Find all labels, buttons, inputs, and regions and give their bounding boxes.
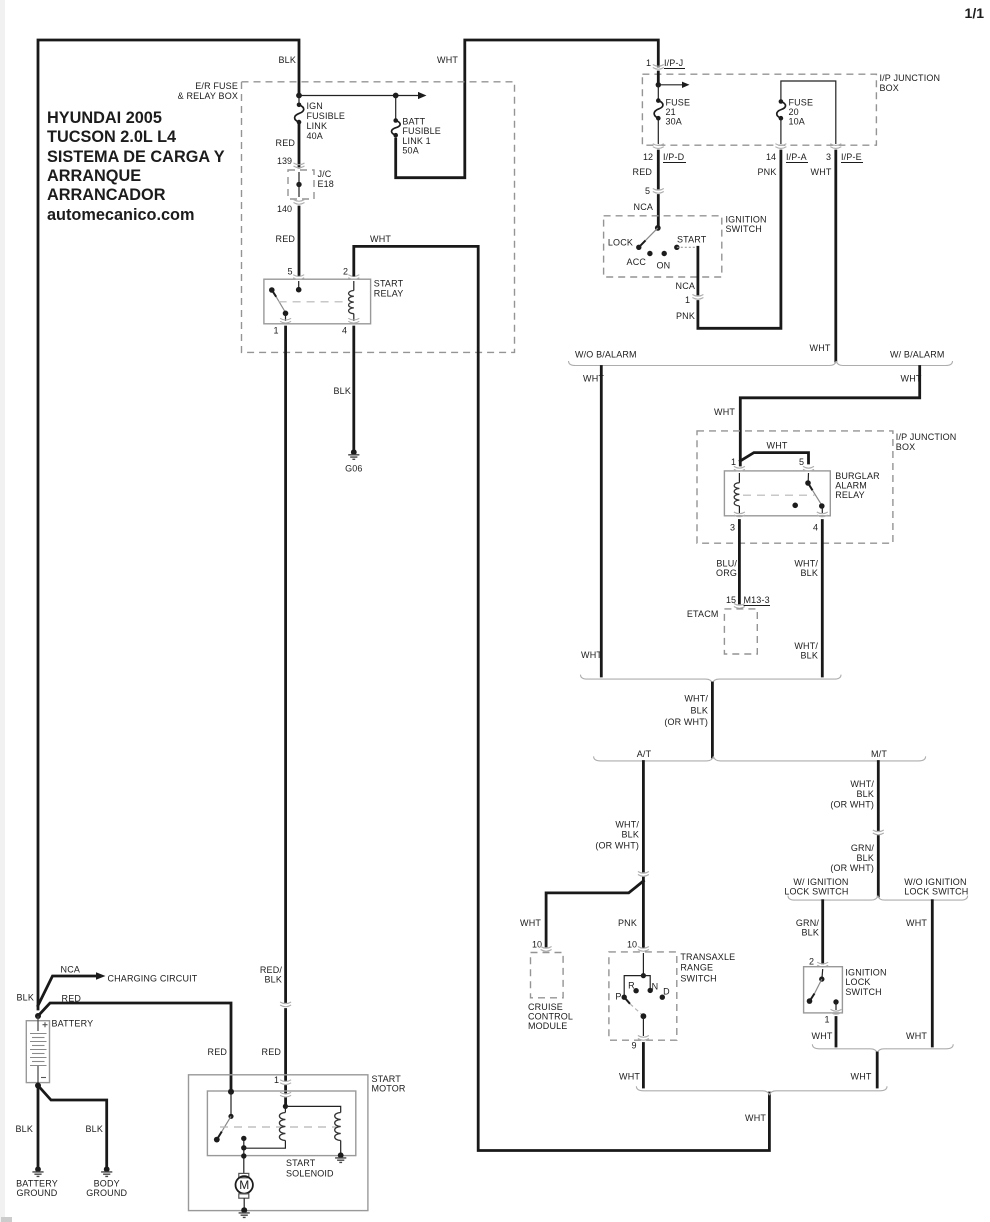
svg-text:WHT: WHT — [811, 167, 832, 177]
label START SOLENOID — [286, 1158, 334, 1179]
svg-text:RED: RED — [633, 167, 653, 177]
connector transaxle pin 9 — [638, 1036, 649, 1041]
label START RELAY — [374, 279, 404, 299]
label WHT/ BLK (lower) — [794, 641, 818, 661]
connector ignition lock pin 2 — [817, 962, 828, 967]
contact R — [633, 988, 638, 993]
solenoid mechanical link (dashed) — [220, 1126, 339, 1128]
svg-text:TRANSAXLE: TRANSAXLE — [680, 952, 735, 962]
svg-text:ORG: ORG — [716, 568, 737, 578]
wire: M/T branch down to lock-switch bus — [877, 762, 880, 897]
svg-text:MODULE: MODULE — [528, 1021, 567, 1031]
wire: RED from J/C to start relay pin 5 — [298, 207, 301, 275]
start relay U1 box — [264, 279, 371, 324]
in-line connector on M/T branch — [873, 830, 884, 835]
svg-text:SISTEMA DE CARGA Y: SISTEMA DE CARGA Y — [47, 148, 225, 166]
start relay switch arm — [269, 287, 275, 293]
ground G06 — [345, 449, 362, 473]
svg-text:BLK: BLK — [86, 1124, 103, 1134]
svg-text:I/P JUNCTION: I/P JUNCTION — [880, 73, 941, 83]
node: battery negative terminal — [35, 1083, 41, 1089]
svg-text:WHT: WHT — [714, 407, 735, 417]
svg-text:4: 4 — [342, 326, 347, 336]
wire: WHT from BATT fusible link up and over to I/P-J — [396, 40, 659, 178]
E/R fuse and relay box (dashed) — [242, 82, 515, 353]
svg-text:WHT/: WHT/ — [794, 559, 818, 569]
svg-text:WHT: WHT — [520, 918, 541, 928]
wire: contact to motor column — [243, 1138, 245, 1173]
connector alarm relay pin 3 — [734, 512, 745, 517]
svg-text:14: 14 — [766, 152, 776, 162]
start motor outer box — [189, 1075, 368, 1211]
svg-text:GRN/: GRN/ — [796, 918, 819, 928]
svg-text:BOX: BOX — [880, 83, 899, 93]
svg-text:BLK: BLK — [16, 1124, 33, 1134]
svg-text:(OR WHT): (OR WHT) — [595, 841, 639, 851]
svg-text:9: 9 — [631, 1041, 636, 1051]
svg-text:10: 10 — [532, 940, 542, 950]
label WHT/ BLK (OR WHT) — [664, 694, 708, 728]
label E/R FUSE & RELAY BOX — [178, 81, 238, 101]
contact P — [622, 995, 627, 1000]
label M13-3 — [744, 595, 771, 606]
alarm relay switch — [792, 473, 824, 513]
svg-text:R: R — [628, 981, 635, 991]
svg-text:PNK: PNK — [758, 167, 777, 177]
wire: RED from battery to start motor — [38, 1003, 231, 1090]
svg-text:TUCSON 2.0L L4: TUCSON 2.0L L4 — [47, 128, 176, 146]
label IGNITION LOCK SWITCH — [845, 968, 886, 998]
svg-text:NCA: NCA — [676, 281, 695, 291]
label I/P JUNCTION BOX — [880, 73, 941, 93]
svg-text:FUSIBLE: FUSIBLE — [307, 111, 346, 121]
connector at J/C bottom — [294, 200, 305, 205]
svg-text:LOCK SWITCH: LOCK SWITCH — [904, 887, 968, 897]
svg-text:WHT/: WHT/ — [850, 779, 874, 789]
svg-text:& RELAY BOX: & RELAY BOX — [178, 91, 238, 101]
svg-text:LOCK: LOCK — [608, 238, 633, 248]
svg-text:BLK: BLK — [622, 830, 639, 840]
node: junction dot at BATT fusible link tap — [393, 93, 399, 99]
svg-text:RED: RED — [276, 138, 296, 148]
svg-text:START: START — [677, 235, 707, 245]
alarm relay mechanical link (dashed) — [743, 494, 815, 496]
body ground symbol — [101, 1166, 112, 1176]
svg-text:1: 1 — [685, 295, 690, 305]
svg-text:10: 10 — [627, 940, 637, 950]
svg-text:W/ B/ALARM: W/ B/ALARM — [890, 350, 945, 360]
svg-text:21: 21 — [666, 107, 676, 117]
merge bus below lock switch — [812, 1044, 953, 1053]
cruise control module box (dashed) — [531, 953, 564, 998]
connector start motor pin 1 — [280, 1080, 291, 1085]
svg-text:139: 139 — [277, 156, 292, 166]
wire: WHT w/ alarm branch to burglar alarm relay — [740, 367, 919, 466]
svg-text:SWITCH: SWITCH — [726, 224, 762, 234]
svg-text:5: 5 — [799, 457, 804, 467]
svg-text:BLK: BLK — [691, 706, 708, 716]
wire: NCA branch to charging circuit — [38, 976, 96, 1006]
connector I/P-D at box bottom — [653, 144, 664, 149]
wire: BLU/ORG from pin 3 to ETACM — [738, 521, 741, 604]
svg-text:BODY: BODY — [94, 1179, 120, 1189]
contact N — [648, 988, 653, 993]
svg-text:1/1: 1/1 — [965, 5, 985, 21]
svg-text:1: 1 — [274, 1075, 279, 1085]
solenoid contact switch — [214, 1092, 234, 1143]
solenoid hold-in winding — [285, 1106, 340, 1154]
svg-text:WHT: WHT — [619, 1072, 640, 1082]
start solenoid inner box — [207, 1091, 355, 1156]
svg-text:START: START — [286, 1158, 316, 1168]
svg-text:PNK: PNK — [676, 311, 695, 321]
svg-text:I/P-E: I/P-E — [841, 152, 862, 162]
fusible link BATT 50A symbol — [392, 118, 401, 137]
wire: START contact stub — [677, 246, 698, 248]
ground at hold-in winding — [335, 1152, 346, 1162]
svg-text:I/P-D: I/P-D — [663, 152, 685, 162]
wire: WHT w/o alarm branch (long left drop) — [600, 367, 603, 677]
wire: feed inside I/P box — [657, 72, 660, 85]
svg-text:BLU/: BLU/ — [716, 559, 737, 569]
ignition switch box (dashed) — [604, 216, 722, 277]
label TRANSAXLE RANGE SWITCH — [680, 952, 735, 984]
svg-text:ALARM: ALARM — [835, 481, 867, 491]
wire: WHT from ignition lock pin 1 — [835, 1018, 838, 1047]
wire: RED from IGN fusible link to J/C E18 — [298, 124, 301, 167]
label CRUISE CONTROL MODULE — [528, 1002, 573, 1031]
node: solenoid winding feed dot — [283, 1104, 288, 1109]
svg-text:RELAY: RELAY — [374, 288, 404, 298]
svg-text:LINK 1: LINK 1 — [402, 136, 430, 146]
contact START — [674, 245, 679, 250]
svg-text:(OR WHT): (OR WHT) — [664, 717, 708, 727]
motor M armature — [236, 1173, 253, 1209]
svg-text:START: START — [374, 279, 404, 289]
node: solenoid motor-side contact — [241, 1136, 246, 1141]
svg-text:WHT/: WHT/ — [684, 694, 708, 704]
label BLU/ ORG — [716, 559, 737, 579]
wire: WHT w/o lock switch branch — [931, 901, 934, 1046]
svg-text:E/R FUSE: E/R FUSE — [195, 81, 238, 91]
connector I/P-J — [653, 65, 664, 70]
svg-text:5: 5 — [287, 267, 292, 277]
svg-text:HYUNDAI 2005: HYUNDAI 2005 — [47, 109, 162, 127]
svg-text:4: 4 — [813, 523, 818, 533]
svg-text:(OR WHT): (OR WHT) — [830, 800, 874, 810]
svg-text:BATTERY: BATTERY — [52, 1019, 94, 1029]
start relay fixed contact from pin 5 — [298, 281, 300, 289]
node: junction dot at BLK tap in E/R box — [296, 93, 302, 99]
svg-text:automecanico.com: automecanico.com — [47, 206, 194, 224]
svg-text:ETACM: ETACM — [687, 609, 719, 619]
label RED/ BLK — [260, 965, 282, 985]
svg-text:SWITCH: SWITCH — [845, 987, 881, 997]
svg-text:PNK: PNK — [618, 918, 637, 928]
value label IGN FUSIBLE LINK 40A — [307, 101, 346, 141]
ignition lock switch box — [804, 967, 843, 1013]
svg-text:GROUND: GROUND — [17, 1188, 58, 1198]
value label BATT FUSIBLE LINK 1 50A — [402, 117, 441, 156]
start relay coil — [353, 281, 355, 291]
svg-text:2: 2 — [343, 267, 348, 277]
svg-text:RED: RED — [208, 1047, 228, 1057]
svg-text:RELAY: RELAY — [835, 490, 865, 500]
svg-text:RED: RED — [262, 1047, 282, 1057]
svg-text:RANGE: RANGE — [680, 963, 713, 973]
svg-text:FUSE: FUSE — [789, 98, 814, 108]
svg-text:BLK: BLK — [857, 789, 874, 799]
connector I/P-A at box bottom — [775, 144, 786, 149]
svg-text:CHARGING CIRCUIT: CHARGING CIRCUIT — [108, 974, 198, 984]
svg-text:40A: 40A — [307, 131, 323, 141]
svg-text:GROUND: GROUND — [86, 1188, 127, 1198]
svg-text:IGN: IGN — [307, 101, 323, 111]
svg-text:WHT: WHT — [901, 374, 922, 384]
wire: WHT/BLK from pin 4 to bracket 2 — [821, 521, 824, 677]
node: pull-in coil junction — [241, 1145, 246, 1150]
connector start relay pin 2 — [348, 275, 359, 280]
svg-text:RED: RED — [276, 234, 296, 244]
label BATTERY GROUND — [16, 1179, 58, 1199]
label J/C E18 — [318, 169, 334, 189]
wire: battery BLK feed (left frame, top run, drop into E/R box) — [38, 40, 299, 1009]
wire: thin feed line with arrow (to other circuits) — [299, 95, 418, 97]
node: battery positive terminal — [35, 1013, 41, 1019]
page left edge scan artifact — [0, 0, 5, 1222]
svg-text:WHT/: WHT/ — [794, 641, 818, 651]
label START MOTOR — [372, 1074, 406, 1094]
svg-text:12: 12 — [643, 152, 653, 162]
svg-text:1: 1 — [273, 326, 278, 336]
svg-text:WHT: WHT — [810, 343, 831, 353]
ignition switch rotor — [641, 225, 661, 246]
connector alarm relay pin 5 — [803, 466, 814, 471]
svg-text:WHT: WHT — [745, 1113, 766, 1123]
I/P junction box (dashed) — [642, 74, 876, 145]
svg-text:CRUISE: CRUISE — [528, 1002, 563, 1012]
svg-text:1: 1 — [646, 58, 651, 68]
alarm relay coil — [734, 473, 739, 513]
wire: A/T branch down to transaxle range switch — [642, 762, 645, 948]
svg-text:BLK: BLK — [801, 568, 818, 578]
option bus: with/without ignition lock switch — [788, 896, 968, 901]
svg-text:RED: RED — [62, 994, 82, 1004]
label GRN/ BLK (OR WHT) — [830, 843, 874, 873]
label I/P-E — [841, 152, 863, 163]
svg-text:WHT: WHT — [583, 374, 604, 384]
option bus: with/without burglar alarm — [569, 361, 953, 366]
in-line connector on RED/BLK wire — [280, 1002, 291, 1007]
svg-text:BLK: BLK — [857, 853, 874, 863]
connector ETACM pin 15 — [734, 604, 745, 609]
svg-text:1: 1 — [824, 1015, 829, 1025]
svg-text:SOLENOID: SOLENOID — [286, 1169, 334, 1179]
value label FUSE 21 30A — [666, 98, 691, 127]
svg-text:30A: 30A — [666, 117, 682, 127]
solenoid pull-in winding — [244, 1106, 286, 1148]
wire: RED/BLK from start relay pin 1 down to start motor — [284, 327, 287, 1105]
start relay switch to pin 1 — [285, 313, 287, 321]
svg-text:5: 5 — [645, 186, 650, 196]
wire: WHT jog to relay pin 5 — [740, 453, 808, 463]
svg-text:ARRANQUE: ARRANQUE — [47, 167, 141, 185]
svg-text:M: M — [239, 1178, 249, 1192]
label I/P-D — [663, 152, 686, 163]
burglar alarm relay box — [724, 471, 830, 516]
svg-text:3: 3 — [730, 523, 735, 533]
svg-text:1: 1 — [731, 457, 736, 467]
svg-text:GRN/: GRN/ — [851, 843, 874, 853]
svg-text:M/T: M/T — [871, 749, 887, 759]
wire: BLK battery to body ground — [38, 1086, 107, 1167]
svg-text:BLK: BLK — [279, 55, 296, 65]
fusible link IGN 40A symbol — [295, 96, 304, 125]
svg-text:WHT: WHT — [812, 1031, 833, 1041]
wire: branch to cruise control module — [546, 881, 643, 946]
contact ACC — [647, 251, 652, 256]
svg-text:I/P-J: I/P-J — [664, 58, 683, 68]
svg-text:A/T: A/T — [637, 749, 652, 759]
ETACM box (dashed) — [724, 609, 757, 654]
wire: WHT from merge bus down — [876, 1053, 879, 1087]
svg-text:ARRANCADOR: ARRANCADOR — [47, 186, 166, 204]
svg-text:LOCK SWITCH: LOCK SWITCH — [784, 887, 848, 897]
svg-text:BLK: BLK — [802, 928, 819, 938]
contact D — [660, 995, 665, 1000]
ground at motor — [239, 1207, 250, 1217]
svg-text:(OR WHT): (OR WHT) — [830, 863, 874, 873]
svg-text:BLK: BLK — [17, 993, 34, 1003]
svg-text:BLK: BLK — [334, 386, 351, 396]
svg-text:140: 140 — [277, 204, 292, 214]
svg-text:BURGLAR: BURGLAR — [835, 471, 880, 481]
svg-text:M13-3: M13-3 — [744, 595, 770, 605]
wire: WHT loop from start relay pin 2 down right side to bottom bus — [354, 246, 770, 1150]
svg-text:J/C: J/C — [318, 169, 332, 179]
svg-text:W/O B/ALARM: W/O B/ALARM — [575, 350, 637, 360]
svg-text:LOCK: LOCK — [845, 977, 870, 987]
label WHT/ BLK (OR WHT) — [595, 820, 639, 851]
transaxle range switch box (dashed) — [609, 952, 677, 1040]
page bottom-left scan smudge — [1, 1217, 12, 1222]
wire: BLK from start relay pin 4 to ground G06 — [352, 327, 355, 449]
node: fuse 21 feed dot with arrow — [656, 82, 661, 87]
svg-text:BATT: BATT — [402, 117, 425, 127]
transaxle wiper arm — [624, 997, 646, 1036]
label I/P-J — [664, 58, 685, 69]
label BODY GROUND — [86, 1179, 127, 1199]
wire: RED from I/P-D to ignition switch — [657, 151, 660, 227]
svg-text:WHT: WHT — [437, 55, 458, 65]
svg-text:D: D — [663, 987, 670, 997]
svg-text:N: N — [652, 982, 659, 992]
fuse 21 30A symbol — [654, 85, 663, 144]
wire: NCA / PNK from START to I/P-A — [698, 151, 781, 328]
contact LOCK — [636, 245, 641, 250]
label GRN/ BLK — [796, 918, 819, 938]
I/P junction box 2 (dashed) — [697, 431, 893, 543]
wire: GRN/BLK to ignition lock switch — [821, 901, 824, 963]
connector alarm relay pin 4 — [817, 512, 828, 517]
wire: BLK battery to battery ground — [37, 1086, 40, 1167]
connector ignition lock pin 1 — [831, 1009, 842, 1014]
merge bus bottom (A/T + M/T join) — [636, 1086, 887, 1095]
svg-text:FUSIBLE: FUSIBLE — [402, 126, 441, 136]
svg-text:2: 2 — [809, 957, 814, 967]
merge bus below alarm circuit — [581, 675, 842, 684]
connector at solenoid top (pin 1 feed) — [280, 1092, 291, 1097]
option bus: A/T vs M/T — [594, 756, 926, 761]
svg-text:WHT/: WHT/ — [615, 820, 639, 830]
svg-text:I/P JUNCTION: I/P JUNCTION — [896, 432, 957, 442]
connector transaxle pin 10 — [638, 947, 649, 952]
svg-text:I/P-A: I/P-A — [786, 152, 807, 162]
value label FUSE 20 10A — [789, 98, 814, 127]
svg-text:W/ IGNITION: W/ IGNITION — [793, 877, 848, 887]
svg-text:WHT: WHT — [581, 650, 602, 660]
svg-text:IGNITION: IGNITION — [845, 968, 886, 978]
svg-text:WHT: WHT — [370, 234, 391, 244]
label IGNITION SWITCH — [726, 215, 767, 235]
label WHT/ BLK (OR WHT) — [830, 779, 874, 810]
svg-text:BLK: BLK — [265, 975, 282, 985]
battery symbol — [26, 1016, 49, 1085]
connector start relay pin 4 — [348, 318, 359, 323]
start relay mechanical link (dashed) — [279, 301, 347, 303]
svg-text:NCA: NCA — [634, 202, 653, 212]
label BURGLAR ALARM RELAY — [835, 471, 880, 500]
battery ground symbol — [32, 1166, 43, 1176]
label WHT/ BLK (upper) — [794, 559, 818, 579]
in-line connector on A/T branch — [638, 872, 649, 877]
connector at J/C top — [294, 163, 305, 168]
contact ON — [662, 251, 667, 256]
node: dot at solenoid box edge — [241, 1153, 246, 1158]
svg-text:WHT: WHT — [851, 1072, 872, 1082]
svg-text:SWITCH: SWITCH — [680, 974, 716, 984]
svg-text:WHT: WHT — [767, 441, 788, 451]
node: solenoid battery terminal — [228, 1089, 234, 1095]
svg-text:CONTROL: CONTROL — [528, 1012, 573, 1022]
connector start relay pin 1 — [280, 318, 291, 323]
wire: WHT/BLK (OR WHT) from merge bus to A/T-M/T bus — [711, 683, 714, 757]
svg-text:FUSE: FUSE — [666, 98, 691, 108]
connector cruise pin 10 — [541, 947, 552, 952]
ignition lock switch contacts — [807, 969, 839, 1010]
svg-text:G06: G06 — [345, 464, 362, 474]
transaxle feed and contacts — [624, 953, 650, 996]
svg-text:IGNITION: IGNITION — [726, 215, 767, 225]
label W/O IGNITION LOCK SWITCH — [904, 877, 968, 897]
svg-text:BATTERY: BATTERY — [16, 1179, 58, 1189]
wire: WHT from I/P-E down to option bus — [834, 151, 837, 361]
label I/P-A — [786, 152, 808, 163]
label W/ IGNITION LOCK SWITCH — [784, 877, 848, 897]
connector I/P-E at box bottom — [830, 144, 841, 149]
label I/P JUNCTION BOX — [896, 432, 957, 452]
svg-text:ACC: ACC — [627, 257, 647, 267]
svg-text:BOX: BOX — [896, 442, 915, 452]
svg-text:E18: E18 — [318, 179, 334, 189]
title block — [47, 109, 225, 224]
svg-text:50A: 50A — [402, 146, 418, 156]
junction connector J/C E18 — [288, 170, 314, 199]
svg-text:WHT: WHT — [906, 1031, 927, 1041]
connector start relay pin 5 — [293, 275, 304, 280]
svg-text:START: START — [372, 1074, 402, 1084]
svg-text:ON: ON — [657, 261, 671, 271]
